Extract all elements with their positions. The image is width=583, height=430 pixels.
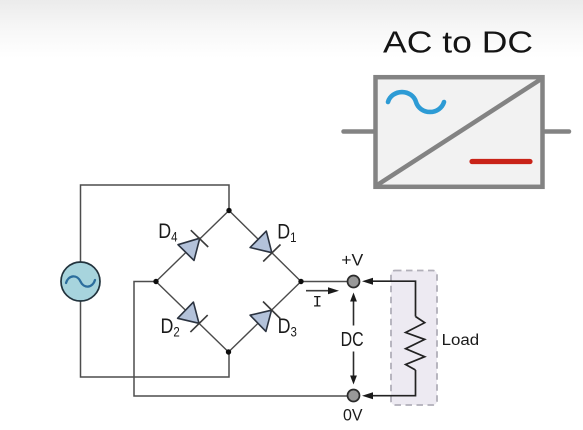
wire bridge left node to 0V rail <box>134 282 347 397</box>
converter AC sine glyph <box>388 92 444 112</box>
node top (bridge) <box>226 208 231 213</box>
node right (bridge) <box>298 279 303 284</box>
node bottom (bridge) <box>226 349 231 354</box>
AC source V1 <box>61 262 100 301</box>
svg-text:0V: 0V <box>343 405 363 424</box>
resistor R-load <box>406 317 425 371</box>
bridge edge bottom-left <box>156 282 229 353</box>
wire AC-source bottom to bridge bottom node <box>81 301 230 377</box>
DC span arrow lower <box>350 352 357 385</box>
diode D4 <box>178 230 208 260</box>
DC span arrow upper <box>350 293 357 326</box>
converter DC bar glyph <box>472 159 530 164</box>
svg-text:D4: D4 <box>158 220 177 245</box>
svg-text:DC: DC <box>341 329 364 351</box>
wire load top branch with arrow to +V <box>362 278 416 317</box>
diode D2 <box>178 302 208 332</box>
diode D3 <box>250 302 280 332</box>
svg-text:AC to DC: AC to DC <box>383 25 533 60</box>
current arrow I <box>306 287 339 294</box>
svg-text:+V: +V <box>341 251 364 270</box>
wire bridge right node to +V terminal <box>301 281 347 283</box>
node left (bridge) <box>153 279 158 284</box>
bridge edge bottom-right <box>229 282 302 353</box>
svg-text:D3: D3 <box>278 314 297 339</box>
terminal 0V <box>348 390 360 402</box>
converter left lead <box>344 129 374 134</box>
svg-text:Load: Load <box>442 332 480 349</box>
svg-text:D1: D1 <box>277 220 296 245</box>
svg-text:I: I <box>313 294 323 312</box>
converter block U1 (AC/DC box) <box>376 77 543 187</box>
diode D1 <box>250 231 280 261</box>
wire AC-source top to bridge top node <box>81 185 230 262</box>
bridge edge top-left <box>156 211 229 282</box>
converter right lead <box>545 129 569 134</box>
bridge edge top-right <box>229 211 301 282</box>
wire load bottom branch with arrow to 0V <box>362 370 416 399</box>
load enclosure (dashed box) <box>391 271 437 406</box>
terminal +V <box>348 276 360 288</box>
